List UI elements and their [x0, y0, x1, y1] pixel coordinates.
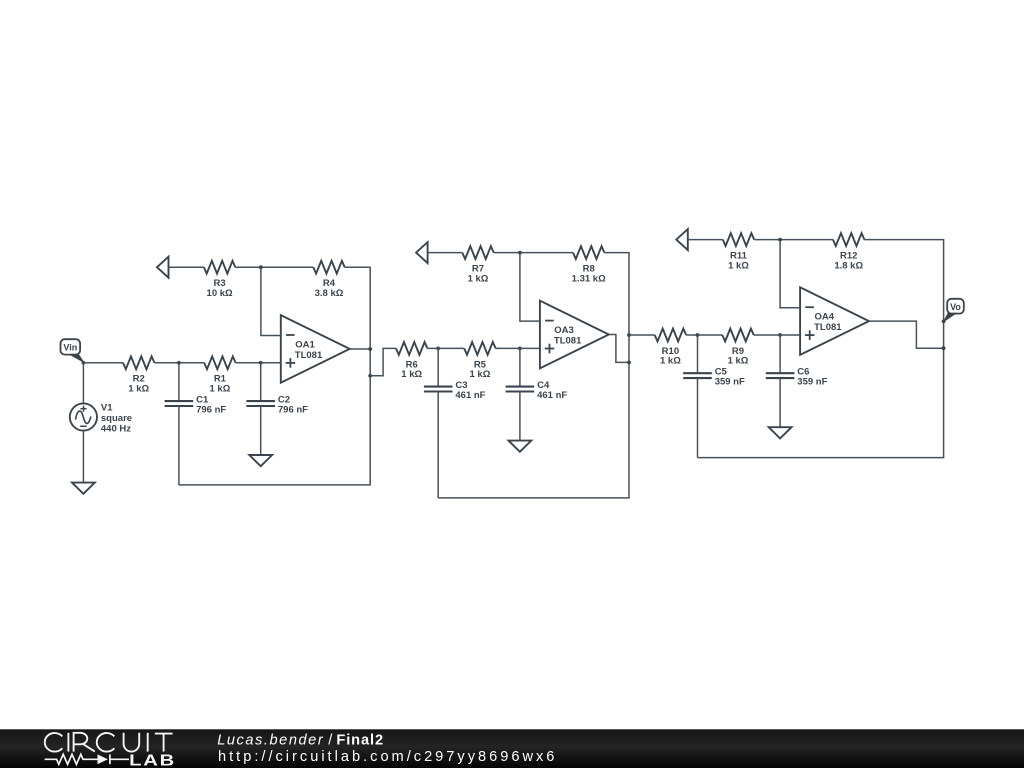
- svg-text:TL081: TL081: [814, 322, 842, 333]
- logo CIRCUIT wordmark: [45, 733, 173, 752]
- op-amp OA4 TL081: [800, 287, 869, 355]
- wire Vin to R2: [83, 362, 123, 364]
- capacitor C6 359 nF: [766, 367, 828, 388]
- svg-text:796 nF: 796 nF: [278, 405, 308, 416]
- capacitor C4 461 nF: [506, 380, 568, 401]
- wire OA3 output jog: [609, 335, 629, 363]
- wire OA1 minus input: [261, 267, 281, 335]
- svg-text:1.8 kΩ: 1.8 kΩ: [834, 260, 863, 271]
- wire node A to R1: [179, 362, 204, 364]
- capacitor C3 461 nF: [424, 380, 486, 401]
- wire node B to OA1 plus input: [261, 362, 281, 364]
- svg-text:square: square: [101, 413, 132, 424]
- wire R7 to R8: [494, 252, 573, 254]
- wire R4 to output line: [345, 267, 371, 376]
- svg-text:1 kΩ: 1 kΩ: [728, 356, 749, 367]
- ground: [769, 427, 792, 438]
- wire R10 to node E: [686, 334, 697, 336]
- wire node C to C3: [437, 348, 439, 386]
- ground: [509, 441, 532, 452]
- svg-text:1 kΩ: 1 kΩ: [468, 273, 489, 284]
- svg-text:461 nF: 461 nF: [455, 390, 485, 401]
- junction OA4 output: [942, 346, 946, 350]
- resistor R2 1 k&#937;: [123, 356, 154, 394]
- junction R7 R8 node: [518, 251, 522, 255]
- wire R11 to R12: [754, 239, 833, 241]
- svg-text:V1: V1: [101, 402, 113, 413]
- svg-text:10 kΩ: 10 kΩ: [207, 288, 233, 299]
- resistor R8 1.31 k&#937;: [572, 246, 606, 284]
- svg-text:OA1: OA1: [295, 339, 315, 350]
- wire C3 to feedback loop: [437, 392, 439, 498]
- resistor R10 1 k&#937;: [655, 329, 686, 367]
- footer bar: [0, 729, 1024, 768]
- wire flag to R3: [169, 266, 204, 268]
- wire R12 to output line: [864, 240, 943, 349]
- resistor R1 1 k&#937;: [204, 356, 235, 394]
- wire C5 to feedback loop: [697, 378, 699, 458]
- net flag: [416, 242, 428, 263]
- wire R5 to node D: [496, 347, 520, 349]
- wire node D to C4: [519, 348, 521, 386]
- wire OA4 minus input: [780, 240, 800, 308]
- wire OA3 minus input: [520, 253, 540, 322]
- wire V1 to ground: [82, 431, 84, 483]
- node Vo junction: [942, 320, 946, 324]
- wire node E to R9: [698, 334, 723, 336]
- wire stage1 to stage2 jog: [370, 348, 396, 375]
- wire node D to OA3 plus input: [520, 347, 540, 349]
- wire Vin node to V1: [82, 363, 84, 404]
- ground: [249, 455, 272, 466]
- junction stage2 tap: [627, 333, 631, 337]
- svg-text:1.31 kΩ: 1.31 kΩ: [572, 273, 606, 284]
- wire node F to OA4 plus input: [780, 334, 800, 336]
- node Vin junction: [82, 361, 86, 365]
- svg-text:1 kΩ: 1 kΩ: [128, 384, 149, 395]
- wire R2 to node A: [154, 362, 179, 364]
- wire OA1 output: [350, 348, 371, 350]
- wire R8 to output line: [604, 253, 629, 363]
- junction node F: [778, 333, 782, 337]
- junction node C: [436, 347, 440, 351]
- wire C1 to feedback loop: [178, 406, 180, 485]
- net flag: [157, 257, 169, 278]
- junction OA3 output: [627, 361, 631, 365]
- capacitor C1 796 nF: [165, 395, 227, 416]
- resistor R3 10 k&#937;: [204, 261, 235, 299]
- junction R3 R4 node: [259, 265, 263, 269]
- wire stage1 feedback bottom: [179, 376, 370, 485]
- capacitor C5 359 nF: [683, 367, 745, 388]
- junction OA1 output: [368, 347, 372, 351]
- op-amp OA3 TL081: [540, 301, 609, 369]
- ground: [72, 483, 95, 494]
- svg-text:1 kΩ: 1 kΩ: [728, 260, 749, 271]
- svg-text:3.8 kΩ: 3.8 kΩ: [315, 288, 344, 299]
- svg-text:LAB: LAB: [129, 751, 176, 768]
- resistor R5 1 k&#937;: [464, 342, 495, 380]
- junction stage1 tap: [368, 374, 372, 378]
- svg-text:Lucas.bender / Final2: Lucas.bender / Final2: [217, 733, 384, 749]
- wire R9 to node F: [754, 334, 780, 336]
- net flag: [676, 229, 688, 250]
- wire C6 to ground: [779, 378, 781, 427]
- svg-text:TL081: TL081: [295, 350, 323, 361]
- wire node C to R5: [438, 347, 464, 349]
- wire R6 to node C: [427, 347, 438, 349]
- resistor R6 1 k&#937;: [396, 342, 427, 380]
- wire node E to C5: [697, 335, 699, 373]
- wire stage2 feedback bottom: [438, 362, 629, 498]
- wire R3 to R4: [235, 266, 313, 268]
- wire flag to R7: [428, 252, 463, 254]
- logo resistor-diode symbol: [45, 754, 129, 764]
- wire OA4 output jog: [869, 321, 944, 348]
- svg-text:796 nF: 796 nF: [196, 405, 226, 416]
- svg-text:http://circuitlab.com/c297yy86: http://circuitlab.com/c297yy8696wx6: [218, 749, 557, 765]
- junction node D: [518, 347, 522, 351]
- svg-text:OA3: OA3: [554, 325, 574, 336]
- resistor R4 3.8 k&#937;: [313, 261, 344, 299]
- capacitor C2 796 nF: [246, 395, 308, 416]
- resistor R9 1 k&#937;: [722, 329, 753, 367]
- wire C4 to ground: [519, 392, 521, 441]
- svg-text:1 kΩ: 1 kΩ: [469, 369, 490, 380]
- svg-text:TL081: TL081: [554, 336, 582, 347]
- svg-text:359 nF: 359 nF: [797, 377, 827, 388]
- wire R1 to node B: [236, 362, 261, 364]
- node Vo flag: [944, 299, 964, 322]
- voltage source V1 square 440 Hz: [70, 402, 132, 434]
- wire node B to C2: [260, 363, 262, 401]
- wire stage2 to stage3: [629, 334, 655, 336]
- svg-text:1 kΩ: 1 kΩ: [660, 356, 681, 367]
- resistor R11 1 k&#937;: [723, 233, 754, 271]
- junction node E: [696, 333, 700, 337]
- svg-text:Vo: Vo: [950, 302, 961, 312]
- svg-text:461 nF: 461 nF: [537, 390, 567, 401]
- wire node F to C6: [779, 335, 781, 373]
- svg-text:OA4: OA4: [815, 312, 835, 323]
- svg-text:1 kΩ: 1 kΩ: [401, 369, 422, 380]
- wire C2 to ground: [260, 406, 262, 455]
- junction R11 R12 node: [778, 238, 782, 242]
- op-amp OA1 TL081: [281, 315, 350, 383]
- node Vin flag: [61, 339, 84, 362]
- resistor R12 1.8 k&#937;: [833, 233, 864, 271]
- wire node A to C1: [178, 363, 180, 401]
- svg-text:359 nF: 359 nF: [715, 377, 745, 388]
- resistor R7 1 k&#937;: [462, 246, 493, 284]
- wire flag to R11: [688, 239, 723, 241]
- junction node B: [259, 361, 263, 365]
- wire stage3 feedback bottom: [698, 348, 944, 457]
- svg-text:Vin: Vin: [63, 343, 77, 353]
- svg-text:1 kΩ: 1 kΩ: [209, 384, 230, 395]
- svg-text:440 Hz: 440 Hz: [101, 423, 131, 434]
- junction node A: [177, 361, 181, 365]
